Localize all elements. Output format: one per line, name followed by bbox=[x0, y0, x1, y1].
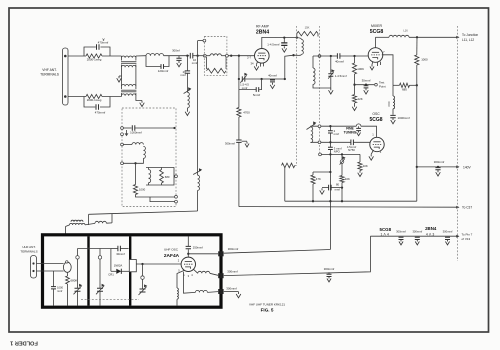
channel strip dashed box bbox=[122, 108, 176, 207]
contact node bbox=[121, 127, 124, 130]
capacitor 390mf bypass bbox=[176, 58, 181, 60]
wire top antenna lead bbox=[68, 55, 86, 57]
wire osc top line bbox=[311, 125, 357, 128]
node bbox=[416, 166, 418, 168]
wire T1 primary leads bbox=[121, 56, 123, 58]
wire bbox=[354, 103, 356, 105]
terminal dot bottom bbox=[64, 95, 67, 98]
heater pins bbox=[261, 63, 264, 67]
capacitor 30mmf bbox=[364, 86, 369, 88]
svg-text:2BN4: 2BN4 bbox=[256, 30, 269, 36]
dashed shield line bbox=[457, 26, 459, 261]
wire bbox=[66, 225, 70, 227]
wire tuning gang rail bbox=[78, 248, 111, 250]
wire bbox=[136, 195, 175, 198]
heater pins bbox=[378, 62, 381, 66]
wire bbox=[272, 78, 274, 81]
wire secondary to grid line bbox=[136, 55, 146, 57]
inductor mixer plate coil bbox=[389, 35, 409, 37]
wire bbox=[224, 290, 239, 292]
svg-text:470mmf: 470mmf bbox=[98, 41, 109, 45]
wire coil bottom link bbox=[294, 54, 302, 55]
variable capacitor gang3 bbox=[140, 289, 146, 292]
node bbox=[330, 55, 332, 57]
wire bbox=[123, 144, 132, 146]
wire 26mmf branch bbox=[186, 56, 188, 71]
wire 47K top link bbox=[313, 171, 330, 173]
wire bbox=[207, 291, 218, 294]
UHF antenna terminal strip bbox=[31, 256, 37, 279]
node bbox=[312, 200, 314, 202]
contact node bbox=[121, 133, 124, 136]
wire bbox=[197, 190, 199, 211]
ground bbox=[282, 46, 287, 52]
capacitor 470mmf (top) bbox=[97, 44, 100, 50]
resistor 680 ohm screen bbox=[400, 83, 410, 87]
svg-text:34: 34 bbox=[251, 62, 254, 66]
wire bbox=[322, 187, 329, 189]
node bbox=[187, 253, 189, 255]
node bbox=[196, 55, 198, 57]
wire ground stub bbox=[242, 140, 247, 142]
wire bbox=[312, 184, 314, 201]
resistor 47K bbox=[311, 175, 315, 184]
svg-text:30mmf: 30mmf bbox=[116, 252, 125, 256]
capacitor 470mmf (bottom) bbox=[96, 104, 99, 110]
capacitor 1000mmf bbox=[390, 115, 395, 117]
contact node bbox=[226, 54, 229, 57]
wire bbox=[365, 85, 367, 86]
inductor UHF heater choke bbox=[198, 271, 210, 273]
wire bbox=[312, 172, 314, 175]
terminal dot bbox=[32, 262, 34, 264]
contact node bbox=[121, 143, 124, 146]
UHF tuner shield box bbox=[43, 235, 222, 307]
wire bbox=[341, 154, 343, 159]
svg-text:40mmf: 40mmf bbox=[335, 60, 344, 64]
inductor oscillator coil bbox=[311, 127, 313, 143]
contact stub bbox=[173, 175, 176, 177]
ground bbox=[117, 76, 122, 82]
variable capacitor gang1 bbox=[75, 288, 81, 291]
wire 10K-2 branch bbox=[359, 154, 361, 162]
arrow bbox=[456, 36, 459, 39]
svg-text:2BN4: 2BN4 bbox=[425, 226, 437, 231]
svg-text:1000: 1000 bbox=[421, 58, 428, 62]
wire bbox=[416, 37, 418, 55]
wire bbox=[238, 79, 240, 108]
svg-text:300mmf: 300mmf bbox=[443, 229, 453, 233]
wire bbox=[37, 263, 64, 265]
inductor UHF choke bbox=[95, 221, 106, 223]
wire bbox=[392, 109, 394, 115]
contact node bbox=[318, 125, 321, 128]
dashed link bbox=[295, 164, 297, 166]
svg-text:TERMINALS: TERMINALS bbox=[20, 249, 37, 253]
resistor strip damping bbox=[282, 163, 295, 168]
terminal dot bbox=[32, 270, 34, 272]
svg-text:40mmf: 40mmf bbox=[268, 73, 277, 77]
svg-text:FOLDER 1: FOLDER 1 bbox=[10, 340, 38, 346]
contact node bbox=[175, 195, 178, 198]
wire hop bbox=[356, 124, 361, 126]
terminal dot top bbox=[64, 55, 67, 58]
wire mixer cathode bbox=[371, 62, 374, 65]
wire strip rail top bbox=[146, 168, 174, 186]
gang2 trimmer bbox=[98, 256, 101, 259]
svg-text:VHF ANT.: VHF ANT. bbox=[42, 68, 57, 72]
wire bbox=[361, 126, 377, 137]
contact node bbox=[175, 200, 178, 203]
svg-text:250mmf: 250mmf bbox=[193, 245, 203, 249]
ground bbox=[236, 292, 241, 298]
feedthrough 300mmf bbox=[218, 289, 223, 294]
svg-text:RF AMP: RF AMP bbox=[256, 24, 270, 28]
wire UHF heater slanted bbox=[224, 236, 371, 275]
node bbox=[437, 166, 439, 168]
contact node bbox=[318, 55, 321, 58]
wire bbox=[99, 291, 101, 305]
adjust arrow bbox=[307, 124, 316, 130]
ground bbox=[329, 88, 334, 94]
resistor 100K bbox=[352, 63, 356, 74]
trap dashed enclosure bbox=[204, 37, 227, 76]
wire bbox=[99, 259, 101, 288]
wire 120mmf loop bbox=[146, 56, 161, 67]
wire bbox=[135, 127, 175, 129]
node bbox=[329, 153, 331, 155]
wire bbox=[187, 249, 189, 257]
wire trap side links bbox=[206, 57, 208, 69]
wire bbox=[65, 227, 67, 236]
svg-text:mmf: mmf bbox=[180, 73, 186, 77]
capacitor 5mmf bbox=[256, 87, 259, 92]
ground bbox=[369, 154, 374, 160]
wire bbox=[416, 65, 418, 85]
wire long riser bbox=[197, 41, 199, 176]
node bbox=[260, 78, 262, 80]
svg-text:2-7: 2-7 bbox=[247, 56, 251, 60]
capacitor 1.5-4.5mmf trimmer bbox=[242, 76, 245, 81]
capacitor 4.5mmf N750 bbox=[351, 140, 354, 146]
svg-text:NPO: NPO bbox=[334, 150, 341, 154]
svg-text:1Λ4: 1Λ4 bbox=[380, 233, 390, 237]
node bbox=[329, 125, 331, 127]
svg-text:680: 680 bbox=[165, 175, 170, 179]
oscillator trimmer bbox=[340, 160, 344, 164]
wire cathode lead bbox=[257, 62, 258, 64]
wire bbox=[437, 166, 439, 169]
svg-text:2000-1meg: 2000-1meg bbox=[87, 98, 102, 102]
capacitor 40mmf series bbox=[337, 53, 340, 59]
gang mechanical link bbox=[81, 299, 139, 301]
svg-text:4Λ3: 4Λ3 bbox=[426, 233, 436, 237]
wire bbox=[67, 284, 69, 306]
node bbox=[416, 84, 418, 86]
AGC arrow bbox=[126, 130, 128, 134]
wire bbox=[123, 158, 143, 163]
wire UHF output 1 bbox=[188, 253, 218, 255]
ground bbox=[140, 101, 145, 107]
wire bbox=[85, 223, 95, 225]
svg-text:mmf: mmf bbox=[335, 188, 341, 192]
inductor mixer grid coil bbox=[313, 68, 315, 84]
svg-text:1000: 1000 bbox=[139, 187, 146, 191]
wire bbox=[135, 163, 137, 184]
value tick bbox=[103, 39, 105, 41]
wire riser to cathode line bbox=[285, 55, 294, 79]
arrow bbox=[456, 165, 459, 168]
node bbox=[238, 78, 240, 80]
inductor adjustable osc-strip coil bbox=[198, 175, 200, 190]
wire bypass loop top bbox=[84, 47, 96, 56]
svg-text:10K: 10K bbox=[345, 177, 350, 181]
svg-text:300mmf: 300mmf bbox=[396, 229, 406, 233]
wire T2 bottom lead bbox=[136, 96, 142, 101]
wire bypass loop bottom bbox=[84, 97, 95, 108]
ground bbox=[245, 142, 249, 147]
node bbox=[341, 153, 343, 155]
ground bbox=[370, 65, 374, 70]
contact node bbox=[318, 141, 321, 144]
svg-text:1N82A: 1N82A bbox=[114, 263, 123, 267]
resistor 1000 ohm strip bbox=[133, 185, 137, 195]
wire bbox=[283, 38, 285, 43]
node bbox=[173, 127, 175, 129]
inductor UHF cathode choke bbox=[177, 288, 178, 299]
node bbox=[329, 171, 331, 173]
wire bbox=[312, 56, 314, 68]
resistor 2000-1meg (top) bbox=[86, 54, 102, 58]
resistor plate load 15K bbox=[297, 31, 318, 35]
svg-text:300mmf: 300mmf bbox=[225, 141, 235, 145]
wire bbox=[354, 141, 371, 143]
svg-text:TERMINALS: TERMINALS bbox=[40, 73, 60, 77]
ground bbox=[185, 110, 190, 116]
capacitor 250mmf bbox=[186, 246, 191, 248]
wire T1 sec left lead bbox=[121, 67, 123, 86]
node bbox=[353, 84, 355, 86]
ground bbox=[352, 105, 357, 111]
inductor RF plate coil bbox=[302, 40, 304, 55]
capacitor 300mmf AGC bbox=[236, 140, 241, 142]
wire osc feed to UHF bbox=[89, 211, 198, 214]
svg-text:300mmf: 300mmf bbox=[324, 267, 335, 271]
node bbox=[141, 263, 143, 265]
svg-text:To C37: To C37 bbox=[462, 206, 472, 210]
wire 3mmf column bbox=[329, 142, 331, 147]
svg-text:mmf: mmf bbox=[57, 289, 62, 293]
svg-text:1-4.5mmf: 1-4.5mmf bbox=[335, 74, 347, 78]
test point terminal bbox=[375, 83, 378, 86]
node bbox=[416, 36, 418, 38]
contact node bbox=[319, 153, 322, 156]
wire bbox=[354, 85, 356, 95]
wire trimmer branch bbox=[330, 56, 332, 73]
transformer T2 secondary bbox=[121, 93, 123, 96]
resistor 4700 ohm cathode bbox=[237, 108, 241, 118]
capacitor 120mmf bbox=[161, 64, 164, 69]
wire bbox=[193, 55, 204, 57]
resistor 22K bbox=[352, 95, 356, 104]
transformer T1 primary bbox=[121, 58, 123, 61]
svg-text:100K: 100K bbox=[357, 67, 364, 71]
wire bbox=[176, 299, 178, 305]
svg-text:47K: 47K bbox=[316, 177, 321, 181]
transformer T1 secondary bbox=[121, 65, 123, 68]
wire bbox=[330, 76, 332, 88]
wire bbox=[341, 183, 343, 202]
wire bbox=[111, 248, 118, 250]
wire bbox=[102, 96, 122, 98]
svg-text:300mmf: 300mmf bbox=[228, 247, 239, 251]
capacitor 1000mmf strip bbox=[132, 125, 135, 131]
wire bbox=[148, 168, 150, 170]
wire bbox=[262, 78, 271, 80]
svg-text:10K: 10K bbox=[363, 164, 368, 168]
wire bbox=[150, 197, 175, 202]
svg-text:1-4.5mmf: 1-4.5mmf bbox=[267, 43, 279, 47]
wire bbox=[37, 270, 64, 272]
wire osc cathode bbox=[371, 150, 373, 154]
wire bbox=[77, 291, 79, 305]
wire bbox=[111, 214, 113, 223]
wire bbox=[210, 273, 218, 275]
wire mixer grid line bbox=[313, 55, 331, 57]
wire bbox=[341, 163, 343, 175]
wire bbox=[66, 272, 68, 276]
inductor strip coil 2 bbox=[149, 170, 151, 183]
wire bottom antenna lead bbox=[68, 96, 86, 98]
svg-text:OSC: OSC bbox=[372, 112, 380, 116]
svg-text:300mmf: 300mmf bbox=[412, 229, 422, 233]
gang1 trimmer bbox=[76, 256, 79, 259]
capacitor fine tuning bbox=[356, 128, 361, 130]
svg-text:30mmf: 30mmf bbox=[362, 78, 371, 82]
svg-text:N750: N750 bbox=[348, 148, 355, 152]
node bbox=[341, 200, 343, 202]
wire bbox=[284, 167, 286, 201]
dashed strip line left bbox=[296, 26, 298, 165]
wire bbox=[376, 36, 390, 38]
svg-text:To Junction: To Junction bbox=[462, 33, 478, 37]
node bbox=[88, 248, 90, 250]
wire 80mmf branch bbox=[331, 187, 342, 189]
ground bbox=[436, 170, 441, 176]
svg-text:300mmf: 300mmf bbox=[434, 160, 445, 164]
wire bbox=[186, 108, 188, 110]
wire coil B column bbox=[184, 272, 196, 294]
wire bbox=[53, 271, 55, 287]
resistor 680K bbox=[66, 276, 70, 284]
VHF antenna terminal strip bbox=[63, 48, 69, 105]
svg-text:5CG8: 5CG8 bbox=[369, 117, 382, 123]
svg-text:140V: 140V bbox=[463, 165, 472, 169]
resistor trap damping bbox=[207, 68, 227, 73]
transformer T2 primary bbox=[121, 86, 123, 89]
wire AGC to line A bbox=[238, 142, 240, 206]
wire ground tap bbox=[119, 75, 122, 77]
node bbox=[283, 36, 285, 38]
inductor strip coil L-shape bbox=[132, 143, 143, 145]
capacitor 30mmf UHF bbox=[118, 246, 121, 252]
inductor 26mmf trap coil bbox=[187, 92, 189, 108]
arrow bbox=[456, 235, 459, 238]
svg-text:680K: 680K bbox=[71, 278, 78, 282]
resistor 1000 ohm bbox=[415, 55, 419, 65]
ground bbox=[320, 188, 325, 194]
svg-text:5mmf: 5mmf bbox=[253, 93, 260, 97]
tube V2 5CG8 mixer bbox=[368, 48, 383, 63]
svg-text:120mmf: 120mmf bbox=[158, 69, 169, 73]
wire heater line bbox=[370, 235, 457, 237]
ground bbox=[270, 83, 275, 89]
wire bbox=[221, 55, 225, 57]
tube V1 2BN4 RF amplifier bbox=[254, 49, 269, 64]
wire bbox=[329, 126, 331, 131]
tube V3 5CG8 oscillator bbox=[370, 137, 384, 151]
wire trap contact stub bbox=[198, 40, 204, 42]
capacitor 1000mmf UHF bbox=[51, 287, 56, 289]
svg-text:300mmf: 300mmf bbox=[227, 269, 238, 273]
inductor series grid coil bbox=[146, 54, 164, 56]
wire bbox=[161, 168, 163, 170]
capacitor 300mmf B+ bypass bbox=[435, 168, 440, 170]
node bbox=[353, 55, 355, 57]
wire UHF IF output slanted bbox=[224, 250, 331, 254]
svg-text:UHF ANT.: UHF ANT. bbox=[22, 245, 36, 249]
svg-text:VHF UHF TUNER KRK121: VHF UHF TUNER KRK121 bbox=[249, 303, 285, 307]
wire bbox=[110, 249, 112, 272]
wire 140V feed bbox=[417, 166, 459, 168]
contact node bbox=[203, 54, 206, 57]
svg-text:CR1: CR1 bbox=[108, 272, 114, 276]
ground bbox=[254, 64, 259, 70]
ground bbox=[364, 88, 369, 94]
svg-text:of V13: of V13 bbox=[462, 237, 471, 241]
node bbox=[134, 162, 136, 164]
capacitor 1-4.5mmf mixer trimmer bbox=[328, 74, 333, 76]
wire bbox=[228, 55, 254, 57]
adjust arrow bbox=[184, 89, 191, 93]
svg-text:4700: 4700 bbox=[243, 110, 250, 114]
capacitor 80mmf bbox=[329, 185, 332, 191]
resistor 2000-1meg (bottom) bbox=[86, 94, 102, 98]
resistor 10K bbox=[340, 176, 344, 183]
wire bbox=[206, 55, 210, 57]
node bbox=[284, 78, 286, 80]
svg-text:mmf: mmf bbox=[192, 61, 198, 65]
wire osc grid line bbox=[311, 141, 351, 143]
capacitor 1-4.5mmf plate trimmer bbox=[281, 43, 287, 46]
wire gang1 column bbox=[77, 249, 79, 256]
svg-text:1000mmf: 1000mmf bbox=[130, 131, 142, 135]
wire AGC column bbox=[238, 56, 240, 79]
gang3 trimmer bbox=[141, 276, 144, 279]
wire 140V column bbox=[416, 85, 418, 201]
contact node bbox=[175, 175, 178, 178]
wire bbox=[123, 127, 131, 129]
contact node bbox=[121, 162, 124, 165]
wire line B bbox=[285, 200, 417, 202]
svg-text:1500: 1500 bbox=[388, 101, 391, 107]
wire bbox=[88, 214, 90, 225]
wire cathode choke bbox=[177, 270, 185, 288]
node bbox=[329, 200, 331, 202]
ground bbox=[357, 131, 361, 136]
tube V4 2AF4A UHF oscillator bbox=[181, 257, 195, 271]
wire choke column bbox=[392, 85, 394, 96]
